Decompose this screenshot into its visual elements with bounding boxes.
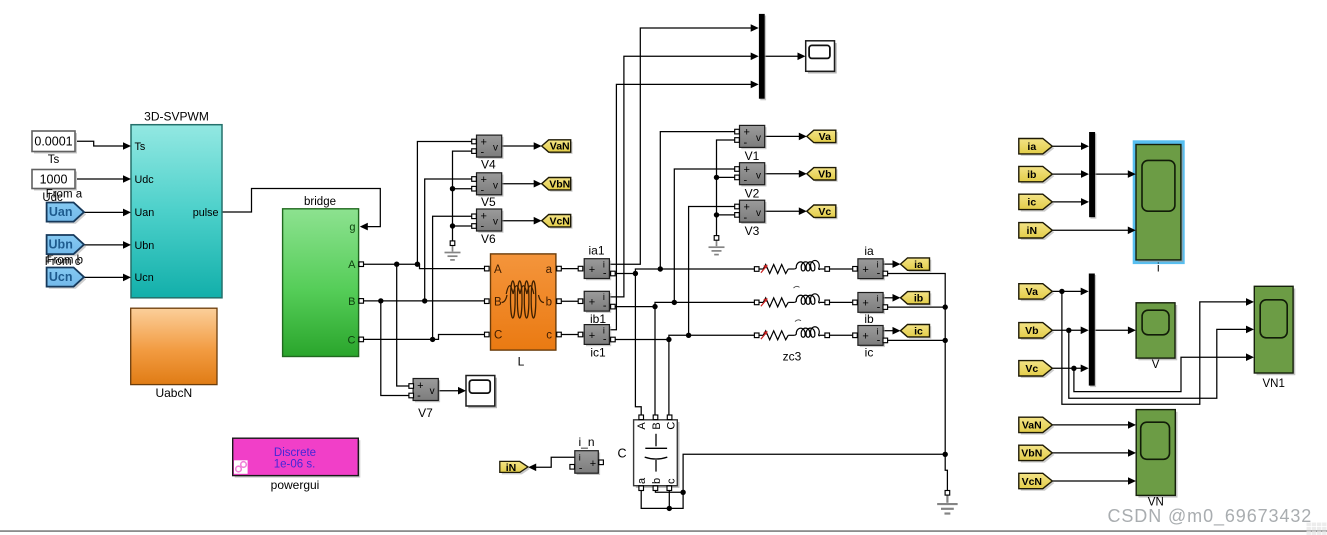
svg-text:A: A <box>348 259 356 271</box>
svg-text:B: B <box>348 296 355 308</box>
svg-text:C: C <box>494 330 502 342</box>
svg-text:Ubn: Ubn <box>135 240 155 252</box>
svg-text:V7: V7 <box>418 406 433 420</box>
svg-text:b: b <box>651 478 663 484</box>
svg-text:Va: Va <box>1026 286 1038 298</box>
svg-text:bridge: bridge <box>304 196 336 208</box>
svg-text:ib: ib <box>914 293 923 305</box>
svg-text:Discrete: Discrete <box>274 447 316 459</box>
svg-text:VN1: VN1 <box>1263 378 1285 390</box>
svg-text:C: C <box>617 447 626 461</box>
svg-text:a: a <box>636 477 648 484</box>
svg-text:VbN: VbN <box>1021 448 1042 460</box>
svg-text:ia: ia <box>914 259 923 271</box>
svg-text:V1: V1 <box>745 149 760 163</box>
svg-text:ib1: ib1 <box>590 312 606 326</box>
svg-text:Ucn: Ucn <box>49 270 73 284</box>
svg-text:C: C <box>348 334 356 346</box>
svg-text:VaN: VaN <box>1022 420 1042 432</box>
svg-text:From c: From c <box>45 256 81 268</box>
svg-text:Vb: Vb <box>818 169 831 181</box>
svg-text:ic: ic <box>865 346 874 360</box>
svg-text:Ucn: Ucn <box>135 272 154 284</box>
svg-text:zc3: zc3 <box>783 350 802 364</box>
svg-text:Ts: Ts <box>135 141 146 153</box>
svg-text:c: c <box>546 330 552 342</box>
svg-text:g: g <box>349 222 355 234</box>
svg-text:1e-06 s.: 1e-06 s. <box>274 458 316 470</box>
svg-text:C: C <box>665 422 677 430</box>
svg-text:ic: ic <box>1027 197 1036 209</box>
svg-text:B: B <box>651 422 663 429</box>
svg-text:A: A <box>494 264 502 276</box>
svg-text:ia1: ia1 <box>588 244 604 258</box>
svg-text:V6: V6 <box>481 232 496 246</box>
svg-text:A: A <box>636 422 648 430</box>
svg-text:UabcN: UabcN <box>155 386 192 400</box>
svg-text:Ubn: Ubn <box>49 238 73 252</box>
svg-text:Vc: Vc <box>818 206 831 218</box>
svg-text:Ts: Ts <box>48 154 60 166</box>
svg-text:L: L <box>518 355 525 369</box>
svg-text:i: i <box>1157 263 1160 275</box>
svg-text:pulse: pulse <box>193 207 219 219</box>
svg-text:VcN: VcN <box>549 215 569 227</box>
svg-text:Udc: Udc <box>135 174 155 186</box>
svg-text:1000: 1000 <box>40 172 68 186</box>
svg-text:V2: V2 <box>745 186 760 200</box>
svg-text:Va: Va <box>819 131 831 143</box>
svg-text:b: b <box>546 296 552 308</box>
svg-text:iN: iN <box>1027 225 1038 237</box>
svg-text:CSDN @m0_69673432: CSDN @m0_69673432 <box>1108 506 1313 527</box>
svg-text:iN: iN <box>506 462 517 474</box>
svg-text:3D-SVPWM: 3D-SVPWM <box>144 110 209 124</box>
svg-text:V: V <box>1152 359 1160 371</box>
svg-text:VaN: VaN <box>550 141 570 153</box>
svg-text:V5: V5 <box>481 195 496 209</box>
svg-text:V4: V4 <box>481 158 496 172</box>
svg-text:VbN: VbN <box>549 178 570 190</box>
svg-text:c: c <box>665 478 677 484</box>
svg-text:VcN: VcN <box>1022 476 1042 488</box>
svg-text:i_n: i_n <box>578 435 594 449</box>
svg-text:Vb: Vb <box>1025 325 1038 337</box>
svg-text:B: B <box>494 296 502 308</box>
svg-text:ic1: ic1 <box>590 346 606 360</box>
svg-text:ib: ib <box>1027 169 1036 181</box>
svg-text:ib: ib <box>864 312 874 326</box>
svg-text:a: a <box>546 264 553 276</box>
svg-text:ia: ia <box>864 244 874 258</box>
svg-text:V3: V3 <box>745 224 760 238</box>
svg-text:ic: ic <box>914 325 923 337</box>
svg-text:ia: ia <box>1027 141 1036 153</box>
svg-text:Uan: Uan <box>49 205 73 219</box>
svg-text:powergui: powergui <box>271 478 320 492</box>
svg-text:0.0001: 0.0001 <box>34 135 72 149</box>
svg-text:Uan: Uan <box>135 207 155 219</box>
svg-text:Vc: Vc <box>1025 363 1038 375</box>
